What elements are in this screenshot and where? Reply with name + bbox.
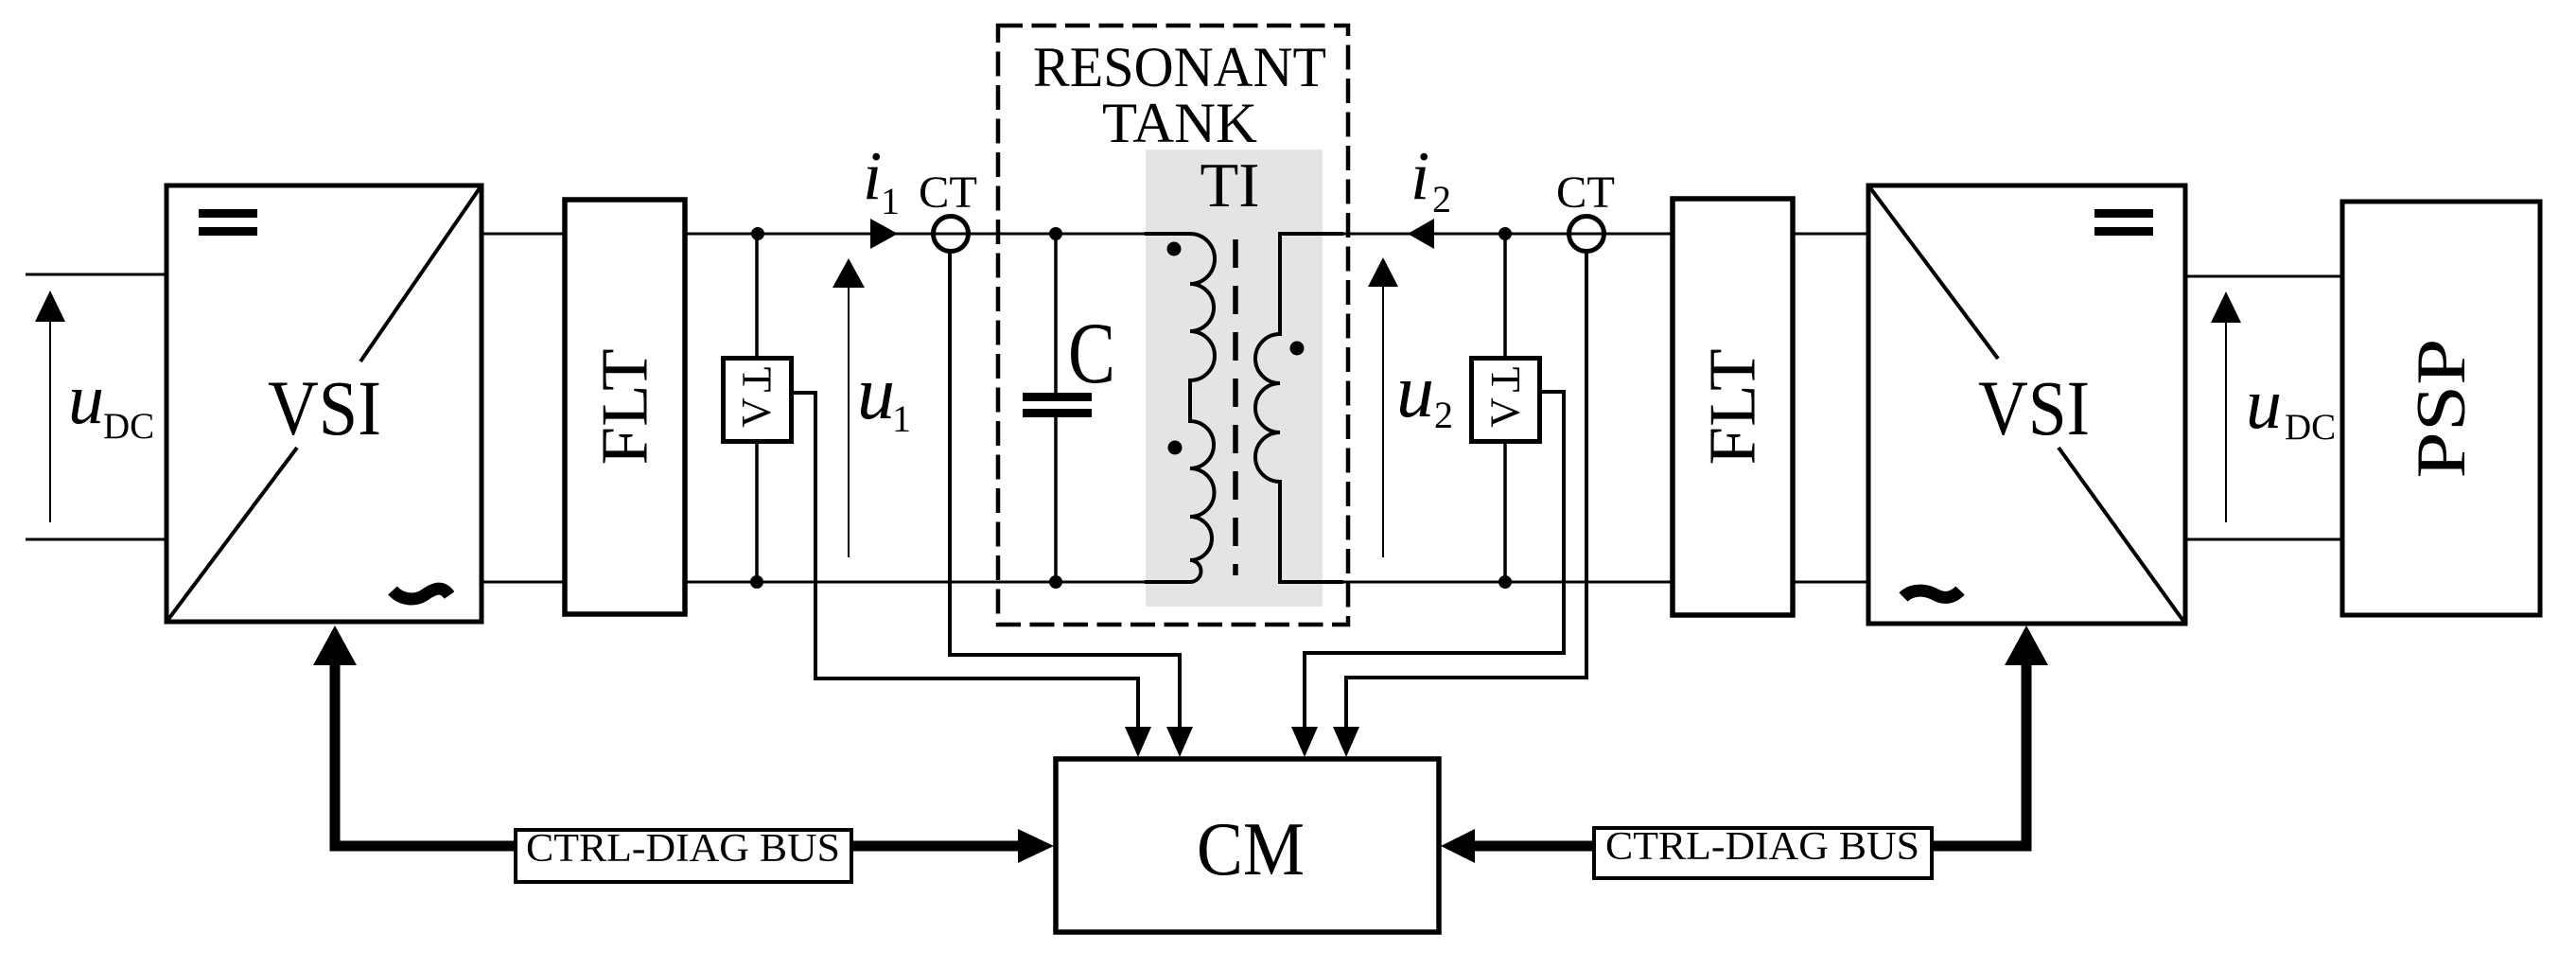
svg-text:2: 2: [1434, 394, 1453, 436]
svg-text:TI: TI: [1200, 150, 1260, 220]
svg-text:CTRL-DIAG BUS: CTRL-DIAG BUS: [526, 827, 840, 871]
svg-text:u: u: [1396, 350, 1434, 433]
svg-text:CM: CM: [1197, 808, 1305, 891]
svg-text:1: 1: [881, 180, 900, 222]
svg-text:T: T: [734, 367, 780, 393]
svg-text:i: i: [863, 137, 882, 214]
svg-text:T: T: [1482, 367, 1529, 393]
svg-text:2: 2: [1432, 178, 1451, 220]
svg-text:CT: CT: [919, 167, 977, 218]
svg-text:u: u: [857, 352, 895, 435]
svg-text:DC: DC: [2285, 407, 2336, 448]
svg-text:FLT: FLT: [589, 349, 662, 466]
svg-text:u: u: [68, 360, 104, 439]
svg-text:PSP: PSP: [2403, 339, 2480, 479]
svg-text:VSI: VSI: [1978, 364, 2090, 451]
svg-text:u: u: [2246, 364, 2282, 444]
svg-text:V: V: [1482, 397, 1529, 428]
svg-text:CT: CT: [1556, 167, 1615, 218]
svg-text:i: i: [1411, 137, 1429, 214]
svg-text:RESONANT: RESONANT: [1033, 36, 1326, 98]
svg-text:C: C: [1068, 305, 1115, 401]
svg-text:1: 1: [892, 397, 911, 440]
svg-text:VSI: VSI: [268, 364, 381, 451]
svg-text:DC: DC: [103, 406, 154, 447]
svg-text:FLT: FLT: [1697, 349, 1770, 466]
svg-text:CTRL-DIAG BUS: CTRL-DIAG BUS: [1605, 825, 1919, 869]
svg-text:V: V: [733, 397, 780, 428]
svg-text:TANK: TANK: [1102, 92, 1257, 154]
